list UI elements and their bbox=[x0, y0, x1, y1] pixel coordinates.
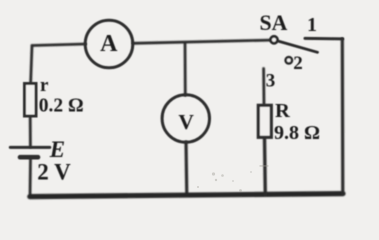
svg-text:V: V bbox=[178, 110, 194, 134]
svg-text:2: 2 bbox=[293, 53, 303, 74]
svg-text:E: E bbox=[49, 137, 65, 162]
tiny tick artifact on R branch wire bbox=[260, 165, 269, 167]
wire contact 1 horizontal bbox=[305, 37, 343, 41]
wire left upper: corner to resistor r bbox=[31, 46, 32, 85]
wire middle upper: top junction to voltmeter bbox=[184, 44, 187, 96]
wire right vertical bbox=[341, 39, 345, 194]
wire top-middle: ammeter to switch pivot bbox=[133, 40, 271, 43]
svg-text:SA: SA bbox=[260, 11, 288, 35]
wire left middle: resistor r to battery bbox=[29, 116, 32, 147]
svg-text:r: r bbox=[40, 75, 49, 96]
resistor r body bbox=[25, 84, 37, 117]
voltmeter V1 body bbox=[162, 95, 209, 142]
wire bottom bbox=[30, 194, 343, 197]
resistor R body bbox=[258, 105, 271, 137]
svg-text:3: 3 bbox=[266, 71, 276, 92]
svg-text:A: A bbox=[100, 31, 118, 57]
battery E long plate bbox=[10, 146, 50, 149]
switch contact 2 bbox=[286, 57, 292, 63]
svg-text:2 V: 2 V bbox=[37, 160, 71, 185]
switch SA arm bbox=[278, 41, 318, 52]
switch SA pivot bbox=[271, 36, 278, 43]
wire top-left: corner to ammeter bbox=[32, 44, 86, 46]
wire left lower: battery to bottom corner bbox=[29, 158, 32, 197]
wire contact 3 stub bbox=[262, 69, 265, 106]
svg-text:0.2 Ω: 0.2 Ω bbox=[39, 95, 84, 116]
battery E short plate bbox=[20, 155, 38, 160]
svg-text:9.8 Ω: 9.8 Ω bbox=[274, 122, 320, 144]
svg-text:1: 1 bbox=[307, 14, 317, 36]
ammeter A1 body bbox=[85, 20, 133, 68]
paper specks (photo noise) bbox=[197, 165, 269, 192]
wire middle lower: voltmeter to bottom wire bbox=[184, 142, 188, 196]
svg-text:R: R bbox=[275, 100, 290, 122]
wire resistor R to bottom bbox=[263, 137, 267, 195]
